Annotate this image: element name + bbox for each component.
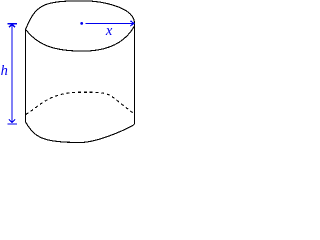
cylinder bottom back arc (dashed, hidden edge) — [26, 92, 134, 114]
cylinder left wall — [25, 30, 27, 123]
height arrow bottom bar — [8, 123, 17, 125]
svg-text:x: x — [105, 23, 113, 39]
cylinder top ellipse upper arc — [26, 1, 135, 30]
radius arrowhead — [130, 21, 134, 26]
height arrow top head — [9, 24, 15, 27]
cylinder right wall — [133, 22, 135, 125]
cylinder top ellipse lower arc — [26, 27, 135, 52]
cylinder bottom front arc — [26, 122, 135, 143]
center dot (top face) — [80, 22, 83, 25]
height arrow top bar — [8, 23, 17, 25]
radius arrow shaft — [85, 22, 133, 24]
svg-text:h: h — [1, 63, 8, 79]
height arrow bottom head — [9, 119, 15, 122]
height arrow shaft — [11, 24, 13, 122]
